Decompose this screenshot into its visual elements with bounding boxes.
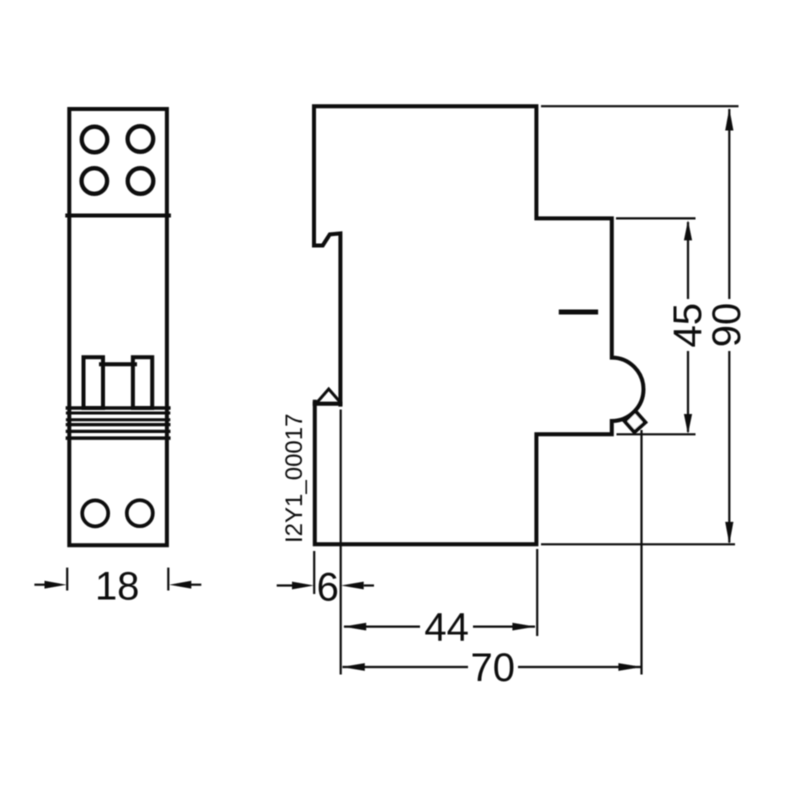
- side view bottom claw triangle: [318, 389, 340, 402]
- terminal screw circle top-left: [82, 127, 108, 153]
- terminal screw circle mid-left: [82, 168, 108, 194]
- DIN rail clip diamond: [625, 411, 646, 432]
- side view bottom claw bar: [315, 402, 341, 406]
- 44 dim line right segment: [473, 625, 535, 627]
- 45 dim top extension line: [616, 217, 696, 219]
- 45 dim top arrowhead: [684, 220, 692, 240]
- front view terminal-block divider line: [67, 214, 169, 218]
- toggle right pillar: [133, 357, 152, 408]
- side view main outline: [314, 106, 643, 544]
- 70 dim left arrowhead: [342, 663, 365, 671]
- svg-text:44: 44: [424, 606, 469, 650]
- terminal screw circle mid-right: [128, 168, 154, 194]
- 18 dim left arrowhead: [45, 581, 67, 589]
- bottom terminal circle left: [82, 500, 108, 526]
- 18 dim right arrowhead: [169, 581, 191, 589]
- 18 dim left arrow tail: [34, 584, 45, 586]
- 6 dim left arrow tail: [277, 584, 293, 586]
- toggle middle bridge bar: [101, 362, 135, 366]
- svg-text:90: 90: [705, 303, 749, 348]
- 45 dim line lower segment: [687, 351, 689, 432]
- 90 dim bottom arrowhead: [725, 522, 733, 544]
- hatch line 6: [67, 436, 168, 440]
- 6 dim left arrowhead: [292, 582, 314, 590]
- toggle left pillar: [84, 357, 104, 408]
- 45 dim line upper segment: [687, 222, 689, 299]
- toggle lever mark: [561, 310, 595, 315]
- svg-text:I2Y1_00017: I2Y1_00017: [281, 414, 308, 543]
- 6 dim right arrowhead: [341, 582, 364, 590]
- 44 dim right extension line: [536, 549, 538, 636]
- hatch line 3: [67, 418, 168, 421]
- 18 dim right arrow tail: [191, 584, 202, 586]
- 70 dim line right segment: [518, 666, 641, 668]
- svg-text:45: 45: [666, 303, 710, 348]
- 45 dim bottom arrowhead: [684, 414, 692, 434]
- 90 dim line lower segment: [728, 351, 730, 543]
- 18 dim right extension tick: [167, 568, 169, 591]
- 44 dim left arrowhead: [343, 623, 366, 631]
- hatch line 2: [67, 412, 168, 415]
- 90 dim top extension line: [541, 105, 739, 107]
- hatch line 4: [67, 423, 168, 426]
- 44 dim line left segment: [344, 625, 420, 627]
- 70 dim right arrowhead: [618, 663, 641, 671]
- svg-text:18: 18: [95, 565, 140, 609]
- 6 dim left extension line: [313, 551, 315, 594]
- 70 dim line left segment: [343, 666, 469, 668]
- front view body outline: [69, 109, 167, 545]
- 6/44/70 shared left extension line: [340, 410, 342, 675]
- svg-text:70: 70: [471, 646, 516, 690]
- 44 dim right arrowhead: [512, 623, 535, 631]
- bottom terminal circle right: [127, 500, 153, 526]
- 45 dim bottom extension line: [617, 433, 696, 435]
- svg-text:6: 6: [317, 566, 339, 610]
- 90 dim line upper segment: [728, 109, 730, 299]
- side view top DIN claw: [314, 233, 340, 404]
- terminal screw circle top-right: [128, 126, 154, 152]
- hatch line 1: [67, 406, 168, 410]
- 90 dim bottom extension line: [541, 543, 735, 545]
- 70 dim right extension line: [640, 430, 642, 675]
- 6 dim right arrow tail: [364, 584, 374, 586]
- 90 dim top arrowhead: [725, 108, 733, 130]
- hatch line 5: [67, 430, 168, 433]
- 18 dim left extension tick: [66, 568, 68, 591]
